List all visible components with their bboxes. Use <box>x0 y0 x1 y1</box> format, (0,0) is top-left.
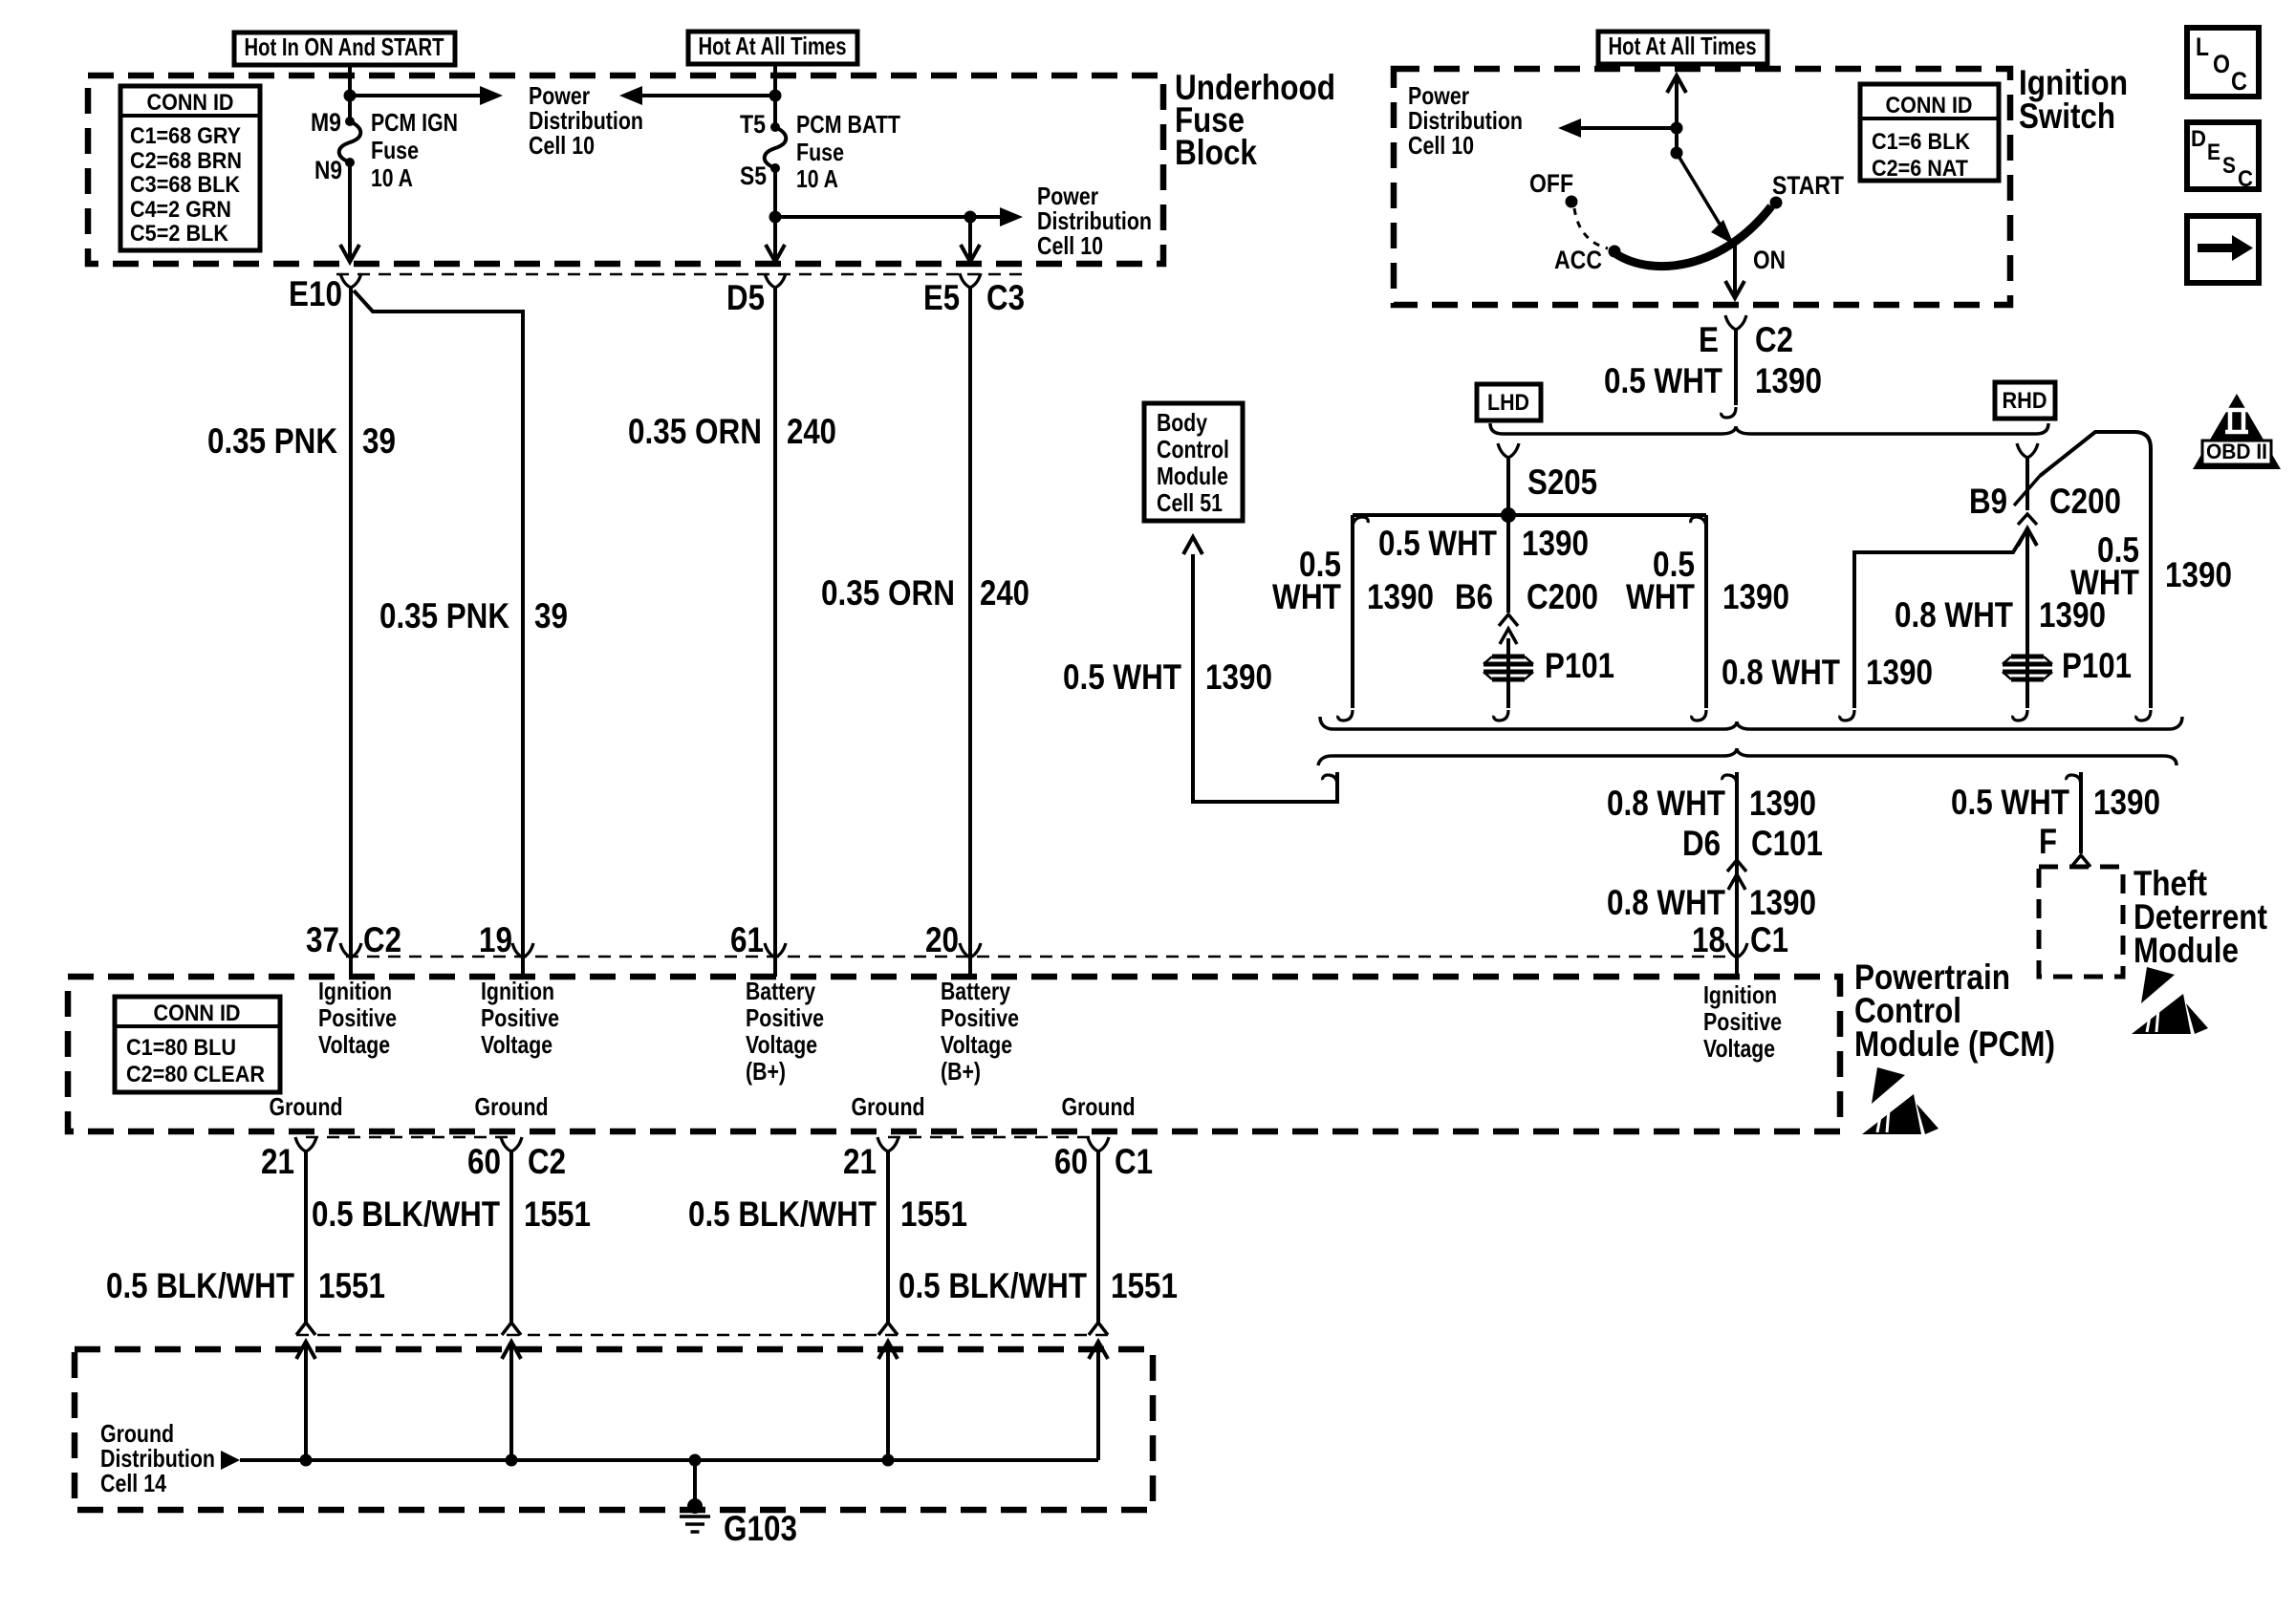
svg-text:1390: 1390 <box>2165 555 2232 594</box>
svg-text:0.8 WHT: 0.8 WHT <box>1722 653 1840 692</box>
svg-text:Ground: Ground <box>1062 1092 1136 1121</box>
svg-text:S5: S5 <box>740 161 767 190</box>
svg-text:START: START <box>1772 171 1844 200</box>
svg-text:D6: D6 <box>1682 824 1721 863</box>
svg-text:D: D <box>2191 126 2206 152</box>
svg-text:CONN ID: CONN ID <box>154 1001 241 1026</box>
svg-text:Positive: Positive <box>1703 1007 1782 1036</box>
svg-text:21: 21 <box>261 1142 294 1181</box>
svg-text:0.5 BLK/WHT: 0.5 BLK/WHT <box>899 1266 1087 1305</box>
junction ACC contact <box>1609 246 1621 258</box>
svg-text:Battery: Battery <box>746 977 815 1005</box>
ground bus wire <box>240 1458 1098 1462</box>
svg-text:C1=68 GRY: C1=68 GRY <box>130 123 241 149</box>
svg-text:0.5 WHT: 0.5 WHT <box>1378 524 1497 563</box>
svg-text:1390: 1390 <box>1522 524 1589 563</box>
wire battery feed into switch <box>1675 75 1679 155</box>
switch detent arc <box>1616 206 1771 267</box>
connector half theft module input <box>2071 855 2090 867</box>
svg-text:E5: E5 <box>923 278 960 317</box>
wire inside ground box <box>509 1342 513 1460</box>
svg-text:0.35 ORN: 0.35 ORN <box>821 573 955 613</box>
svg-text:0.8 WHT: 0.8 WHT <box>1895 595 2013 635</box>
junction G103 terminal <box>687 1498 703 1514</box>
wire end RHD main end <box>2013 710 2027 721</box>
svg-text:C2=80 CLEAR: C2=80 CLEAR <box>126 1062 265 1087</box>
CONN ID table PCM <box>115 997 280 1092</box>
harness brace upper <box>1320 717 2182 729</box>
svg-text:Control: Control <box>1157 435 1229 463</box>
svg-text:Hot In ON And START: Hot In ON And START <box>245 32 444 61</box>
svg-text:21: 21 <box>843 1142 877 1181</box>
wire inside ground box <box>304 1342 308 1460</box>
connector receptacle PCM pin 19 <box>512 943 533 958</box>
svg-text:PCM IGN: PCM IGN <box>371 108 458 137</box>
svg-text:Module: Module <box>2134 931 2239 970</box>
switch wiper <box>1677 153 1721 226</box>
svg-text:S205: S205 <box>1527 463 1597 502</box>
svg-text:ON: ON <box>1753 246 1786 274</box>
connector receptacle D5 <box>765 273 786 288</box>
svg-text:Block: Block <box>1175 133 1257 172</box>
wire 0.8 WHT 1390 RHD left branch <box>1854 535 2024 708</box>
grommet P101 RHD <box>2003 656 2052 679</box>
svg-text:C2=6 NAT: C2=6 NAT <box>1872 156 1968 182</box>
wire PCM BATT feed <box>773 64 777 127</box>
svg-text:Fuse: Fuse <box>371 136 419 164</box>
svg-text:1390: 1390 <box>1367 577 1434 616</box>
svg-text:CONN ID: CONN ID <box>1886 93 1973 118</box>
svg-text:C200: C200 <box>1527 577 1598 616</box>
arrow up from ground distribution x=1149 <box>1089 1342 1108 1359</box>
svg-text:Ground: Ground <box>852 1092 925 1121</box>
wire ground 0.5 BLK/WHT 1551 <box>304 1151 308 1323</box>
svg-text:F: F <box>2039 822 2057 861</box>
OBD II icon <box>2193 394 2281 469</box>
svg-text:Cell 10: Cell 10 <box>1037 231 1103 260</box>
wire end pigtail end <box>2136 710 2151 721</box>
wire 0.5 WHT 1390 from switch <box>1734 330 1738 405</box>
wire end RHD left branch end <box>1840 710 1854 721</box>
wire switch output ON <box>1733 244 1737 294</box>
svg-text:Body: Body <box>1157 408 1207 437</box>
connector receptacle E C2 <box>1725 315 1746 330</box>
wire to power distribution from switch <box>1579 126 1677 130</box>
ignition switch dashed box <box>1394 69 2010 305</box>
harness brace lower <box>1318 748 2177 765</box>
svg-text:C1=80 BLU: C1=80 BLU <box>126 1035 236 1061</box>
svg-text:1390: 1390 <box>1722 577 1789 616</box>
junction bus at pin21b wire <box>882 1454 895 1467</box>
svg-text:Ground: Ground <box>270 1092 343 1121</box>
svg-text:0.35 ORN: 0.35 ORN <box>628 412 762 451</box>
svg-text:WHT: WHT <box>1272 577 1341 616</box>
dashed arc OFF to ACC <box>1574 208 1608 248</box>
connector receptacle ground pin 21 right <box>877 1137 899 1151</box>
svg-text:Voltage: Voltage <box>941 1030 1012 1059</box>
svg-text:C2: C2 <box>1755 320 1793 359</box>
svg-text:C2: C2 <box>528 1142 566 1181</box>
wire drop to E5 <box>968 217 972 258</box>
fuse element PCM BATT Fuse 10 A <box>770 122 780 132</box>
wire branch right <box>775 215 1002 219</box>
junction feed to power distribution <box>344 90 357 102</box>
svg-text:Positive: Positive <box>746 1003 824 1032</box>
svg-text:L: L <box>2196 32 2209 61</box>
wire end harness exit to PCM18 <box>1722 775 1737 785</box>
theft deterrent module dashed box <box>2039 867 2123 977</box>
RHD box <box>1995 382 2055 419</box>
svg-text:Switch: Switch <box>2019 97 2115 136</box>
arrow icon box <box>2187 216 2259 283</box>
fuse element PCM IGN Fuse 10 A <box>345 117 355 126</box>
arrow up from ground distribution x=320 <box>296 1342 315 1359</box>
svg-text:ACC: ACC <box>1554 246 1602 274</box>
wire 0.35 ORN 240 <box>773 288 777 957</box>
svg-text:0.35 PNK: 0.35 PNK <box>207 421 337 461</box>
svg-text:B6: B6 <box>1455 577 1493 616</box>
wire curl left branch top <box>1353 517 1368 528</box>
wire S205 horizontal <box>1353 513 1706 517</box>
PCM dashed box <box>68 977 1840 1131</box>
grommet P101 LHD <box>1484 656 1533 679</box>
junction splice S205 <box>1501 507 1516 523</box>
junction bus at G103 tap <box>689 1454 702 1467</box>
svg-text:1390: 1390 <box>2093 783 2160 822</box>
svg-text:C: C <box>2238 166 2253 192</box>
wire 0.5 WHT 1390 to theft module <box>2079 772 2083 853</box>
LOC icon box <box>2187 28 2259 97</box>
svg-text:P101: P101 <box>1545 646 1614 685</box>
svg-text:19: 19 <box>479 920 512 959</box>
wire 0.35 ORN 240 second <box>968 288 972 957</box>
wire end harness exit to theft module <box>2067 775 2081 785</box>
svg-text:B9: B9 <box>1969 482 2007 521</box>
connector half ground wire end x=1149 <box>1089 1323 1108 1335</box>
svg-text:1390: 1390 <box>1749 883 1816 922</box>
svg-text:1390: 1390 <box>1755 361 1822 400</box>
svg-text:E: E <box>1699 320 1719 359</box>
inline connector B9 C200 slash <box>2014 476 2040 506</box>
arrow down into connector D5 <box>766 245 785 262</box>
svg-text:0.35 PNK: 0.35 PNK <box>379 596 509 635</box>
svg-text:Positive: Positive <box>941 1003 1019 1032</box>
wire B6 to P101 <box>1506 638 1510 708</box>
connector line below PCM left pair <box>306 1136 511 1139</box>
svg-text:Positive: Positive <box>481 1003 559 1032</box>
header box Hot At All Times right <box>1598 32 1767 64</box>
CONN ID table fuse block <box>120 86 260 250</box>
arrow down into connector E5 <box>961 245 980 262</box>
wire ground 0.5 BLK/WHT 1551 <box>509 1151 513 1323</box>
inline connector D6 C101 <box>1727 860 1746 890</box>
svg-text:61: 61 <box>730 920 764 959</box>
wire 0.5 WHT 1390 C200 pigtail <box>2040 432 2151 708</box>
wire 0.5 WHT 1390 right branch <box>1704 515 1708 708</box>
svg-text:0.8 WHT: 0.8 WHT <box>1607 784 1725 823</box>
ESD symbol theft module <box>2141 967 2175 1003</box>
DESC icon box <box>2187 122 2259 189</box>
svg-text:10 A: 10 A <box>796 164 838 193</box>
svg-text:P101: P101 <box>2062 646 2132 685</box>
svg-text:60: 60 <box>467 1142 501 1181</box>
connector line below PCM right pair <box>888 1136 1098 1139</box>
wire curl right branch top <box>1691 517 1706 528</box>
svg-text:Positive: Positive <box>318 1003 397 1032</box>
svg-text:E10: E10 <box>289 274 342 313</box>
wire LHD drop to S205 <box>1506 458 1510 515</box>
wire S5 down to D5 <box>773 168 777 258</box>
svg-text:C1=6 BLK: C1=6 BLK <box>1872 129 1971 155</box>
svg-text:240: 240 <box>980 573 1029 613</box>
svg-text:(B+): (B+) <box>746 1057 786 1086</box>
harness brace LHD RHD <box>1490 423 2048 434</box>
svg-text:N9: N9 <box>314 156 342 184</box>
svg-text:Hot At All Times: Hot At All Times <box>699 32 847 60</box>
svg-text:18: 18 <box>1692 920 1725 959</box>
junction bus at pin60C2 wire <box>506 1454 518 1467</box>
svg-text:D5: D5 <box>726 278 765 317</box>
connector receptacle PCM pin 61 <box>765 943 786 958</box>
svg-text:C: C <box>2231 67 2247 96</box>
svg-text:Module (PCM): Module (PCM) <box>1854 1024 2055 1064</box>
svg-text:0.5 WHT: 0.5 WHT <box>1604 361 1722 400</box>
svg-text:Ignition: Ignition <box>318 977 392 1005</box>
connector line above ground box <box>296 1334 1109 1337</box>
svg-text:C101: C101 <box>1751 824 1823 863</box>
connector receptacle PCM pin 18 <box>1726 943 1747 958</box>
arrow down switch output to E <box>1725 281 1744 298</box>
junction bus at pin21 wire <box>300 1454 313 1467</box>
svg-text:C3=68 BLK: C3=68 BLK <box>130 172 241 198</box>
connector receptacle ground pin 21 left <box>295 1137 316 1151</box>
arrowhead to power distribution cell 10 switch <box>1558 118 1581 138</box>
inline connector B6 C200 <box>1499 614 1518 644</box>
junction branch to E5 <box>964 211 977 224</box>
connector receptacle PCM pin 37 <box>340 943 361 958</box>
svg-text:C3: C3 <box>986 278 1025 317</box>
svg-text:Ignition: Ignition <box>481 977 554 1005</box>
ground symbol G103 <box>680 1517 710 1532</box>
arrow up from ground distribution x=929 <box>878 1342 898 1359</box>
connector line above PCM <box>346 956 1737 958</box>
svg-text:20: 20 <box>925 920 959 959</box>
svg-text:Voltage: Voltage <box>1703 1034 1775 1063</box>
wire N9 to E10 <box>348 162 352 258</box>
wire inside ground box <box>1096 1342 1100 1460</box>
connector receptacle E5 <box>960 273 981 288</box>
svg-text:O: O <box>2213 50 2230 78</box>
wire 0.5 WHT 1390 left branch <box>1351 515 1354 708</box>
arrow up to body control module <box>1183 537 1202 554</box>
feed triangle ground distribution <box>221 1451 240 1470</box>
ground distribution dashed box <box>75 1349 1153 1510</box>
connector half B9 lower half <box>2018 514 2037 525</box>
connector receptacle LHD drop <box>1498 443 1519 458</box>
svg-text:Fuse: Fuse <box>796 138 844 166</box>
svg-text:Hot At All Times: Hot At All Times <box>1609 32 1757 60</box>
wire 0.35 PNK 39 <box>349 288 353 957</box>
wire S205 to B6 <box>1506 515 1510 613</box>
svg-text:Ground: Ground <box>475 1092 549 1121</box>
svg-text:37: 37 <box>306 920 339 959</box>
arrow up into B9 connector <box>2018 528 2037 546</box>
connector half ground wire end x=535 <box>502 1323 521 1335</box>
svg-text:1551: 1551 <box>1111 1266 1178 1305</box>
connector receptacle RHD drop <box>2017 443 2038 458</box>
svg-text:RHD: RHD <box>2003 388 2047 414</box>
junction OFF contact <box>1566 196 1578 208</box>
junction START contact <box>1770 197 1783 209</box>
CONN ID table ignition switch <box>1860 84 1999 181</box>
wire end harness exit to BCM <box>1323 775 1337 785</box>
svg-text:1390: 1390 <box>1749 784 1816 823</box>
svg-text:C2=68 BRN: C2=68 BRN <box>130 148 242 174</box>
wire ground 0.5 BLK/WHT 1551 <box>1096 1151 1100 1323</box>
connector half ground wire end x=320 <box>296 1323 315 1335</box>
svg-text:OFF: OFF <box>1529 169 1573 198</box>
svg-text:E: E <box>2207 140 2220 165</box>
svg-text:39: 39 <box>534 596 568 635</box>
wire end middle branch end <box>1494 710 1508 721</box>
wire ground 0.5 BLK/WHT 1551 <box>886 1151 890 1323</box>
svg-text:Voltage: Voltage <box>318 1030 390 1059</box>
body control module box <box>1144 403 1243 521</box>
svg-text:0.5 WHT: 0.5 WHT <box>1951 783 2069 822</box>
svg-text:0.8 WHT: 0.8 WHT <box>1607 883 1725 922</box>
arrowhead to power distribution cell 10 <box>480 86 503 105</box>
svg-text:M9: M9 <box>311 108 341 137</box>
svg-text:WHT: WHT <box>2070 563 2139 602</box>
header box Hot At All Times left <box>688 32 857 64</box>
svg-text:1390: 1390 <box>1205 657 1272 697</box>
svg-text:C1: C1 <box>1750 920 1788 959</box>
svg-text:60: 60 <box>1054 1142 1088 1181</box>
svg-text:G103: G103 <box>724 1509 797 1548</box>
junction branch to cell 10 <box>769 211 782 224</box>
connector half ground wire end x=929 <box>878 1323 898 1335</box>
wire to power distribution left <box>350 94 482 97</box>
svg-text:C200: C200 <box>2049 482 2121 521</box>
wire 0.5 WHT 1390 to BCM <box>1193 554 1337 802</box>
svg-text:Ignition: Ignition <box>1703 980 1777 1009</box>
connector receptacle E10 <box>340 273 361 288</box>
junction feed to power distribution 2 <box>769 90 782 102</box>
underhood fuse block dashed box <box>88 75 1163 264</box>
svg-text:0.5 BLK/WHT: 0.5 BLK/WHT <box>312 1194 500 1234</box>
connector line under fuse block <box>336 273 1030 276</box>
wire end E C2 wire into harness <box>1722 407 1736 418</box>
svg-text:1551: 1551 <box>318 1266 385 1305</box>
svg-text:1390: 1390 <box>1866 653 1933 692</box>
wire end left branch end <box>1338 710 1353 721</box>
connector receptacle PCM pin 20 <box>960 943 981 958</box>
wire 0.8 WHT 1390 to C101 <box>1735 772 1739 957</box>
arrowhead to power distribution cell 10 left <box>619 86 642 105</box>
arrowhead to power distribution cell 10 right <box>1000 207 1023 226</box>
svg-text:0.5 BLK/WHT: 0.5 BLK/WHT <box>688 1194 877 1234</box>
svg-text:10 A: 10 A <box>371 163 413 192</box>
svg-text:C4=2 GRN: C4=2 GRN <box>130 197 231 223</box>
svg-text:Cell 10: Cell 10 <box>1408 131 1474 160</box>
svg-text:0.5 WHT: 0.5 WHT <box>1063 657 1181 697</box>
connector receptacle ground pin 60 C1 <box>1088 1137 1109 1151</box>
svg-text:C5=2 BLK: C5=2 BLK <box>130 221 229 247</box>
svg-text:Voltage: Voltage <box>746 1030 817 1059</box>
junction switch feed junction 1 <box>1671 122 1683 135</box>
svg-text:LHD: LHD <box>1487 390 1529 416</box>
wire PCM IGN feed <box>348 65 352 121</box>
svg-text:240: 240 <box>787 412 836 451</box>
wire branch E10 to pin 19 <box>354 291 523 957</box>
wire to power distribution arrow left <box>640 94 775 97</box>
LHD box <box>1477 384 1541 420</box>
wire end right branch end <box>1692 710 1706 721</box>
svg-text:1551: 1551 <box>524 1194 591 1234</box>
svg-text:Cell 10: Cell 10 <box>529 131 595 160</box>
svg-text:1551: 1551 <box>900 1194 967 1234</box>
arrow down into connector E10 <box>340 245 359 262</box>
svg-text:S: S <box>2222 153 2236 179</box>
svg-text:PCM BATT: PCM BATT <box>796 110 900 139</box>
svg-text:Voltage: Voltage <box>481 1030 552 1059</box>
svg-text:C2: C2 <box>363 920 401 959</box>
svg-text:(B+): (B+) <box>941 1057 981 1086</box>
svg-text:WHT: WHT <box>1626 577 1695 616</box>
header box Hot In ON And START <box>234 32 455 65</box>
svg-text:Cell 14: Cell 14 <box>100 1469 166 1497</box>
svg-text:Battery: Battery <box>941 977 1010 1005</box>
wire RHD drop to B9 <box>2025 458 2029 510</box>
arrow up battery feed <box>1667 75 1686 93</box>
svg-text:OBD II: OBD II <box>2206 440 2267 463</box>
connector receptacle ground pin 60 C2 <box>501 1137 522 1151</box>
svg-text:T5: T5 <box>740 110 766 139</box>
svg-text:Cell 51: Cell 51 <box>1157 488 1223 517</box>
wire B9 to P101 RHD <box>2025 528 2029 708</box>
arrow up from ground distribution x=535 <box>502 1342 521 1359</box>
wire G103 drop <box>693 1460 697 1504</box>
svg-text:CONN ID: CONN ID <box>147 90 234 116</box>
svg-text:0.5 BLK/WHT: 0.5 BLK/WHT <box>106 1266 294 1305</box>
svg-text:C1: C1 <box>1115 1142 1153 1181</box>
svg-text:Module: Module <box>1157 462 1228 490</box>
wire inside ground box <box>886 1342 890 1460</box>
svg-text:39: 39 <box>362 421 396 461</box>
junction switch feed junction 2 <box>1671 147 1683 160</box>
ESD symbol PCM <box>1872 1067 1905 1104</box>
